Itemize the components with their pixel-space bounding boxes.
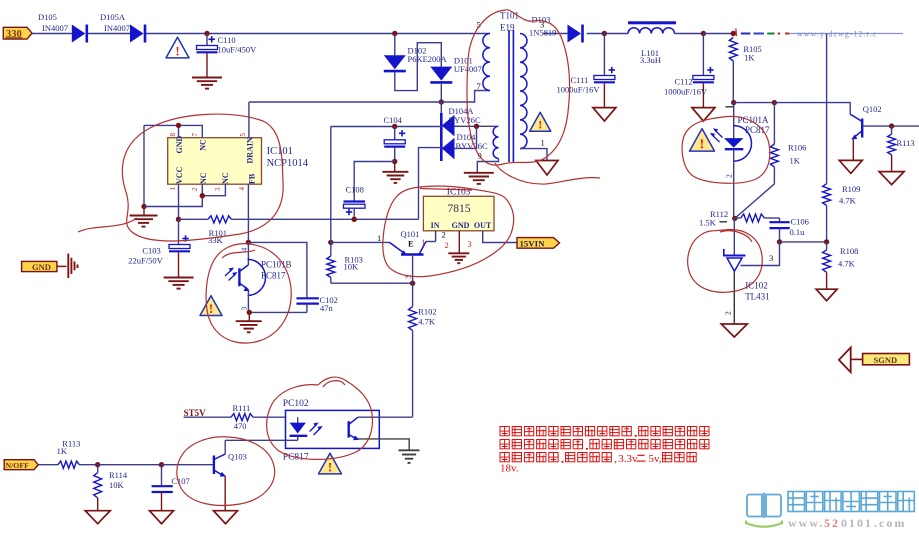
optocoupler PC102 body	[286, 410, 380, 448]
junction R113	[889, 123, 894, 128]
junction R112	[732, 216, 737, 221]
warning triangle PC101A	[690, 129, 715, 152]
svg-text:E: E	[408, 239, 414, 249]
wire FB pin4 down	[247, 184, 249, 242]
wire D103 to C111	[587, 33, 605, 35]
wire ON/OFF to R113	[38, 464, 58, 466]
wire Q103 emitter to ground	[224, 476, 226, 510]
svg-text:!: !	[328, 459, 332, 474]
svg-text:!: !	[175, 43, 179, 58]
svg-text:3: 3	[214, 187, 222, 191]
svg-text:BYV26C: BYV26C	[456, 141, 488, 151]
junction C104 top	[392, 124, 397, 129]
svg-text:330: 330	[6, 29, 22, 40]
ground R114	[85, 511, 110, 524]
wire Q101 collector to 7815 IN	[426, 241, 436, 243]
svg-text:PC102: PC102	[283, 399, 309, 409]
optocoupler PC101B	[247, 242, 249, 265]
resistor R105	[729, 38, 737, 62]
wire PC102 emitter to ground	[358, 439, 409, 450]
wire x330 vertical C104 to Q101 wire	[330, 127, 332, 243]
junction R114	[95, 462, 100, 467]
svg-text:NCP1014: NCP1014	[267, 158, 309, 169]
junction C104 bottom	[392, 159, 397, 164]
logo chinese name	[788, 492, 805, 512]
net label GND with power symbol	[22, 261, 57, 271]
wire Q102 base to R113	[862, 125, 919, 127]
wire PC101A to R106	[734, 102, 775, 104]
svg-text:1K: 1K	[57, 446, 68, 456]
wire C104 bottom to C108	[354, 162, 395, 201]
svg-text:1: 1	[422, 238, 426, 247]
svg-text:10K: 10K	[109, 480, 125, 490]
capacitor C112	[702, 34, 704, 76]
annotation circle around PC102	[267, 377, 373, 459]
wire D104A anode to aux winding	[455, 125, 499, 127]
ground Q102 emitter	[839, 160, 862, 173]
junction R103 top	[328, 240, 333, 245]
ground C107	[150, 511, 174, 524]
svg-text:D105: D105	[38, 12, 57, 22]
annotation circle around IC102 TL431	[688, 230, 763, 293]
wire D104 anode	[455, 126, 477, 148]
svg-text:3: 3	[240, 307, 249, 311]
svg-text:OUT: OUT	[474, 221, 492, 230]
ground below C111	[593, 108, 616, 122]
wire Q101 emitter feed	[331, 241, 390, 243]
svg-text:52: 52	[824, 516, 840, 530]
svg-text:7: 7	[477, 81, 481, 91]
wire IC101 drain pin5	[248, 102, 250, 138]
svg-text:4: 4	[238, 187, 246, 191]
capacitor C103	[178, 219, 180, 244]
ground PC101B	[248, 312, 250, 321]
svg-text:1: 1	[377, 233, 381, 243]
capacitor C110	[204, 31, 209, 36]
diode D102	[384, 55, 406, 69]
svg-text:2: 2	[725, 174, 734, 178]
svg-text:1000uF/16V: 1000uF/16V	[557, 85, 601, 95]
junction left ground	[141, 204, 146, 209]
net label 15VIN	[517, 238, 560, 249]
wire D102 branch	[394, 34, 396, 56]
svg-text:PC101B: PC101B	[261, 260, 292, 270]
svg-text:FB: FB	[247, 173, 256, 184]
svg-text:DRAIN: DRAIN	[246, 137, 255, 163]
wire PC102 LED cathode to Q103	[225, 439, 298, 441]
capacitor C102	[296, 297, 319, 299]
svg-text:!: !	[209, 301, 213, 316]
svg-text:R106: R106	[788, 143, 806, 153]
svg-text:Q101: Q101	[401, 229, 420, 239]
ground aux pin9	[464, 172, 494, 174]
resistor R114	[97, 465, 99, 473]
svg-text:1N5819: 1N5819	[529, 28, 556, 38]
inductor L101	[628, 21, 676, 24]
svg-text:,: ,	[614, 453, 617, 465]
warning triangle inside transformer loop	[530, 112, 551, 131]
transistor Q101	[390, 242, 405, 253]
junction FB	[246, 240, 251, 245]
svg-text:C108: C108	[346, 185, 364, 195]
warning triangle below PC102	[319, 453, 342, 474]
wire L101 to C112	[674, 33, 703, 35]
junction drain rail at D101	[439, 99, 444, 104]
svg-text:7: 7	[191, 133, 199, 137]
svg-text:0.1u: 0.1u	[790, 227, 806, 237]
wire D102 to D101	[395, 43, 442, 91]
wire R114 to C107	[98, 464, 162, 466]
svg-text:.com: .com	[874, 516, 906, 530]
svg-text:IN: IN	[431, 221, 440, 230]
transistor Q102	[850, 114, 862, 121]
annotation circle around IC101	[78, 114, 283, 241]
svg-text:3.3uH: 3.3uH	[640, 55, 661, 65]
svg-text:2: 2	[445, 240, 449, 250]
wire PC102 collector to R102	[358, 416, 413, 418]
junction pin8	[176, 123, 181, 128]
junction Q101 base	[410, 281, 415, 286]
svg-text:BYV26C: BYV26C	[449, 115, 481, 125]
svg-text:4.7K: 4.7K	[838, 259, 856, 269]
capacitor C108	[344, 200, 366, 202]
svg-text:N/OFF: N/OFF	[6, 461, 30, 470]
wire 7815 OUT to 15VIN	[483, 231, 517, 243]
svg-text:1: 1	[541, 138, 545, 148]
svg-text:NC: NC	[199, 172, 208, 184]
annotation circle around Q103	[177, 437, 275, 506]
junction C108 bottom	[352, 217, 357, 222]
resistor R101	[179, 218, 209, 220]
svg-text:0101: 0101	[841, 516, 873, 530]
svg-text:www.: www.	[788, 516, 824, 530]
svg-text:Q102: Q102	[863, 104, 882, 114]
wire R106 diagonal to R112 junction	[735, 184, 775, 219]
junction PC101A anode	[731, 100, 736, 105]
wire D105A to transformer pin5	[146, 33, 490, 35]
svg-text:www.y-dzwg-12.t.c: www.y-dzwg-12.t.c	[797, 30, 877, 39]
ground C103	[164, 277, 194, 279]
wire 7815 GND pin	[458, 231, 460, 254]
svg-text:PC817: PC817	[745, 125, 770, 135]
wire C104 rail	[331, 126, 442, 128]
svg-text:GND: GND	[32, 262, 51, 272]
net label 330	[3, 27, 32, 39]
svg-text:1K: 1K	[744, 53, 755, 63]
PC102 LED	[297, 417, 299, 422]
junction R108	[824, 239, 829, 244]
resistor R113 left	[58, 461, 79, 468]
svg-text:R109: R109	[842, 184, 860, 194]
wire R106 junction to Q102 collector	[774, 103, 850, 115]
logo book icon	[747, 495, 762, 517]
resistor R113 right	[891, 126, 893, 134]
svg-text:5: 5	[239, 133, 247, 137]
svg-text:D103: D103	[532, 15, 551, 25]
warning triangle near C110	[166, 37, 189, 58]
capacitor C106	[779, 218, 781, 221]
annotation circle around T101	[467, 10, 600, 184]
svg-text:C110: C110	[218, 35, 236, 45]
svg-text:3.3v: 3.3v	[618, 453, 638, 465]
svg-text:PC101A: PC101A	[738, 115, 770, 125]
svg-text:1K: 1K	[790, 156, 801, 166]
svg-text:D105A: D105A	[100, 12, 126, 22]
junction R105	[731, 31, 736, 36]
svg-text:VCC: VCC	[175, 166, 184, 184]
diode D105	[72, 25, 86, 43]
wire C107 to Q103 base	[162, 464, 214, 466]
svg-text:C106: C106	[791, 217, 809, 227]
svg-text:GND: GND	[452, 221, 470, 230]
diode D104A	[442, 115, 455, 137]
wire 7815 IN pin	[435, 231, 437, 242]
annotation circle around PC101B	[206, 244, 291, 343]
svg-text:IN4007: IN4007	[42, 23, 68, 33]
svg-text:7815: 7815	[448, 203, 471, 215]
resistor R103	[330, 242, 332, 256]
junction R106	[772, 100, 777, 105]
resistor R109	[823, 184, 831, 206]
wire secondary to D103	[543, 33, 568, 35]
svg-text:PC817: PC817	[261, 271, 286, 281]
svg-text:E19: E19	[500, 23, 515, 33]
wire C111 to L101	[604, 33, 628, 35]
wire aux bottom pin9 to ground	[477, 158, 498, 172]
svg-text:1: 1	[169, 187, 177, 191]
svg-text:3: 3	[769, 253, 773, 263]
ground Q103	[214, 511, 238, 524]
junction C111	[602, 31, 607, 36]
junction VCC	[176, 217, 181, 222]
ground R108	[816, 289, 837, 301]
net label SGND	[839, 348, 851, 373]
resistor R108	[826, 242, 828, 250]
wire left rail to ground	[143, 125, 145, 206]
svg-text:470: 470	[234, 421, 247, 431]
wire rail to R109	[826, 34, 828, 184]
wire R101 up to D104	[419, 148, 442, 220]
wire C112 to R105 junction	[703, 33, 733, 35]
wire FB to C102 top	[248, 242, 307, 297]
wire IC101 pins 8-7 tie	[178, 125, 180, 137]
wire R103 bottom to Q101 base	[331, 282, 413, 284]
svg-text:8: 8	[169, 133, 177, 137]
svg-text:1000uF/16V: 1000uF/16V	[664, 87, 708, 97]
svg-text:R111: R111	[233, 403, 251, 413]
svg-text:T101: T101	[500, 11, 519, 21]
wire TL431 anode to ground	[733, 271, 735, 324]
annotation circle around PC101A	[682, 116, 770, 183]
resistor R112	[735, 217, 741, 219]
svg-text:TL431: TL431	[745, 292, 770, 302]
warning triangle PC101B	[200, 296, 222, 316]
svg-text:4.7K: 4.7K	[839, 196, 857, 206]
transistor Q103	[213, 456, 215, 475]
wire secondary bottom pin1 to ground	[520, 149, 547, 161]
wire Q102 emitter to ground	[852, 140, 854, 161]
svg-text:22uF/50V: 22uF/50V	[128, 256, 163, 266]
capacitor C104	[394, 127, 396, 140]
ground 7815	[448, 252, 469, 254]
ground PC102 emitter	[399, 449, 420, 451]
junction top rail at D102	[392, 31, 397, 36]
annotation circle around IC103	[383, 186, 514, 277]
svg-text:15VIN: 15VIN	[520, 238, 546, 248]
svg-text:1.5K: 1.5K	[699, 218, 717, 228]
wire ST5V to R111	[184, 416, 231, 418]
svg-text:IN4007: IN4007	[104, 23, 130, 33]
capacitor C111	[603, 34, 605, 76]
PC102 phototransistor	[348, 421, 350, 437]
ground C104	[394, 162, 396, 172]
svg-text:C104: C104	[384, 115, 403, 125]
svg-text:SGND: SGND	[874, 355, 898, 365]
svg-text:10uF/450V: 10uF/450V	[218, 45, 258, 55]
svg-text:18v.: 18v.	[500, 463, 519, 475]
ground below C112	[692, 108, 715, 122]
wire C106 to R108	[780, 241, 827, 243]
svg-text:47n: 47n	[320, 303, 334, 313]
transformer T101	[483, 34, 490, 91]
junction aux winding	[474, 124, 479, 129]
svg-text:4: 4	[240, 248, 249, 252]
wire Q101 base down to R102	[412, 255, 414, 284]
junction C107	[159, 462, 164, 467]
watermark dashes on rail	[735, 28, 738, 36]
optocoupler PC101A	[733, 103, 735, 139]
diode D105A	[130, 25, 144, 43]
resistor R111	[231, 414, 253, 421]
wire pins 2-3 tie	[201, 184, 203, 196]
svg-text:C103: C103	[142, 246, 160, 256]
ground TL431	[721, 324, 747, 337]
wire C102 bottom to PC101B emitter	[249, 311, 307, 313]
wire TL431 ref to C106 junction	[741, 242, 780, 266]
svg-text:!: !	[700, 138, 705, 153]
diode D101	[430, 67, 452, 81]
ground IC101 left	[143, 207, 145, 216]
svg-text:Q103: Q103	[228, 452, 247, 462]
junction C112	[701, 31, 706, 36]
svg-text:3: 3	[468, 239, 472, 249]
svg-text:NC: NC	[199, 139, 208, 151]
red annotation text	[500, 427, 509, 436]
wire IC101 drain to transformer pin 7	[249, 91, 490, 103]
svg-text:C112: C112	[675, 77, 693, 87]
svg-text:R114: R114	[109, 470, 128, 480]
svg-text:C107: C107	[171, 476, 189, 486]
svg-text:R108: R108	[840, 246, 858, 256]
capacitor C107	[161, 465, 163, 486]
ground below C110	[192, 77, 222, 79]
resistor R106	[773, 103, 775, 144]
wire shared cathode D104	[440, 102, 442, 113]
svg-text:4.7K: 4.7K	[418, 317, 436, 327]
diode D103	[568, 25, 582, 43]
net label ON/OFF	[4, 460, 38, 470]
wire D101 to drain rail	[440, 84, 442, 102]
junction pin2	[200, 193, 205, 198]
svg-text:2: 2	[191, 187, 199, 191]
svg-text:!: !	[538, 118, 542, 132]
wire VCC pin1 down	[178, 184, 180, 219]
junction C106 bottom	[777, 239, 782, 244]
shunt regulator IC102 TL431	[733, 218, 735, 255]
svg-text:2: 2	[442, 230, 446, 240]
svg-text:NC: NC	[221, 172, 230, 184]
svg-text:R102: R102	[418, 307, 436, 317]
op-amp U1 IC101 NCP1014 body	[168, 138, 262, 185]
wire 330 to D105	[32, 33, 72, 35]
wire D105 to D105A	[88, 33, 130, 35]
wire Q103 collector up	[224, 440, 226, 454]
svg-text:2: 2	[724, 311, 733, 315]
diode D104	[442, 138, 455, 160]
resistor R102	[412, 283, 414, 306]
ground secondary pin1	[536, 161, 558, 176]
junction PC101B emitter	[247, 310, 252, 315]
svg-text:GND: GND	[175, 136, 184, 154]
svg-text:5v,: 5v,	[649, 453, 662, 465]
svg-text:R113: R113	[897, 138, 915, 148]
svg-text:C111: C111	[571, 75, 589, 85]
ground R113	[879, 172, 904, 185]
svg-text:10K: 10K	[344, 262, 360, 272]
